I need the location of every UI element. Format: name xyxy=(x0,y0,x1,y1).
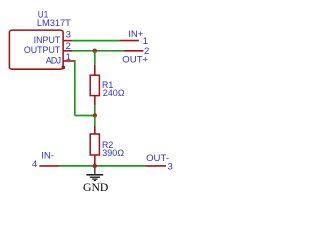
svg-text:IN-: IN- xyxy=(41,151,54,162)
U1 corner marker dot xyxy=(62,66,66,70)
svg-text:INPUT: INPUT xyxy=(34,35,61,45)
port 2 stub xyxy=(124,50,144,52)
resistor R1 bottom lead xyxy=(94,96,96,106)
ground bar 2 xyxy=(90,176,100,178)
ground bar 4 xyxy=(94,180,96,182)
wire junction down to R2 xyxy=(94,116,96,126)
svg-text:3: 3 xyxy=(66,30,71,41)
ground bar 1 xyxy=(86,174,103,176)
svg-text:390Ω: 390Ω xyxy=(102,148,124,158)
wire ADJ vertical xyxy=(74,61,76,116)
ground stem xyxy=(94,166,96,174)
svg-text:1: 1 xyxy=(66,52,71,63)
pin 1 ADJ stub xyxy=(63,60,76,62)
svg-text:OUTPUT: OUTPUT xyxy=(24,45,61,55)
resistor R1 top lead xyxy=(94,65,96,75)
wire net OUT+ xyxy=(73,50,124,52)
resistor R2 bottom lead xyxy=(94,155,96,166)
svg-text:LM317T: LM317T xyxy=(37,18,71,28)
svg-text:OUT+: OUT+ xyxy=(122,55,148,66)
junction on OUT+ net xyxy=(93,49,97,53)
wire R1 to ADJ junction xyxy=(94,105,96,115)
svg-text:240Ω: 240Ω xyxy=(103,88,125,98)
svg-text:ADJ: ADJ xyxy=(46,55,61,65)
wire GND net xyxy=(60,165,146,167)
op-amp U1 body (LM317T regulator box) xyxy=(9,30,63,69)
svg-text:4: 4 xyxy=(32,159,37,170)
port 4 stub xyxy=(39,165,59,167)
svg-text:OUT-: OUT- xyxy=(146,153,169,164)
resistor R1 body xyxy=(90,75,99,95)
svg-text:2: 2 xyxy=(66,41,71,52)
resistor R2 body xyxy=(90,134,99,155)
wire net IN+ xyxy=(73,40,120,42)
port 1 stub xyxy=(119,40,139,42)
svg-text:1: 1 xyxy=(143,36,148,47)
port 3 stub xyxy=(146,165,167,167)
label U1 xyxy=(38,9,49,20)
resistor R2 top lead xyxy=(94,126,96,134)
svg-text:GND: GND xyxy=(83,181,108,194)
wire ADJ horizontal xyxy=(75,115,95,117)
pin 3 INPUT stub xyxy=(63,40,73,42)
wire from junction down to R1 xyxy=(94,51,96,65)
pin 2 OUTPUT stub xyxy=(63,50,73,52)
svg-text:3: 3 xyxy=(168,161,173,172)
junction ADJ node xyxy=(93,113,97,117)
junction GND node xyxy=(93,164,97,168)
svg-text:IN+: IN+ xyxy=(128,29,144,40)
ground bar 3 xyxy=(92,178,97,180)
